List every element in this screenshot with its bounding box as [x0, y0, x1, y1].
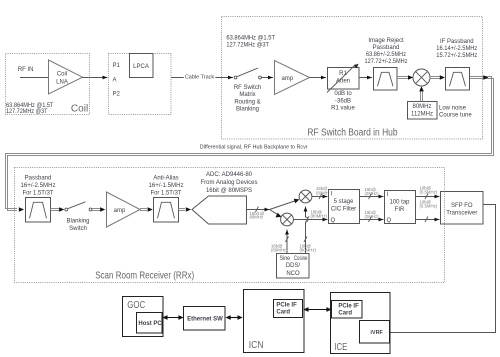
svg-text:DDS/: DDS/ — [286, 263, 301, 269]
svg-text:ICN: ICN — [249, 340, 264, 351]
svg-text:Image Reject: Image Reject — [368, 38, 404, 44]
svg-text:iVRF: iVRF — [370, 330, 383, 336]
svg-text:Routing &: Routing & — [234, 99, 260, 105]
svg-text:Matrix: Matrix — [239, 92, 255, 98]
svg-text:From Analog Devices: From Analog Devices — [200, 180, 257, 186]
svg-text:Ethernet SW: Ethernet SW — [187, 317, 223, 323]
svg-text:Transceiver: Transceiver — [446, 210, 477, 216]
svg-text:Cosine: Cosine — [294, 256, 308, 262]
svg-text:Cable Track: Cable Track — [185, 74, 215, 80]
svg-text:RF Switch Board in Hub: RF Switch Board in Hub — [307, 127, 398, 138]
svg-text:127.72+/-2.5MHz: 127.72+/-2.5MHz — [365, 59, 408, 65]
svg-text:Low noise: Low noise — [439, 105, 467, 111]
svg-text:-36dB: -36dB — [335, 98, 351, 104]
svg-text:IF Passband: IF Passband — [440, 39, 474, 45]
svg-text:Course tune: Course tune — [439, 113, 472, 119]
svg-text:16+/-1.5MHz: 16+/-1.5MHz — [149, 183, 184, 189]
svg-text:PCIe IF: PCIe IF — [338, 303, 359, 309]
svg-text:112MHz: 112MHz — [411, 111, 433, 117]
svg-text:GOC: GOC — [127, 300, 145, 311]
svg-text:63.86+/-2.5MHz: 63.86+/-2.5MHz — [366, 52, 406, 58]
svg-text:Switch: Switch — [69, 226, 87, 232]
svg-text:Scan Room Receiver (RRx): Scan Room Receiver (RRx) — [95, 270, 194, 281]
svg-text:127.72MHz @3T: 127.72MHz @3T — [6, 109, 48, 115]
svg-text:(2MHz): (2MHz) — [365, 191, 380, 196]
svg-text:(80MHz): (80MHz) — [311, 214, 328, 219]
svg-text:Card: Card — [338, 311, 352, 317]
svg-text:RF IN: RF IN — [18, 67, 34, 73]
svg-text:Passband: Passband — [25, 176, 52, 182]
svg-text:80MHz: 80MHz — [412, 104, 431, 110]
svg-text:Blanking: Blanking — [236, 107, 259, 113]
svg-text:Q: Q — [331, 218, 336, 224]
svg-text:ADC: AD9446-80: ADC: AD9446-80 — [206, 172, 253, 178]
svg-text:5 stage: 5 stage — [334, 199, 354, 205]
svg-text:Blanking: Blanking — [66, 219, 89, 225]
svg-text:ICE: ICE — [334, 342, 347, 353]
svg-text:LNA: LNA — [56, 80, 68, 86]
svg-text:16+/-2.5MHz: 16+/-2.5MHz — [21, 183, 56, 189]
svg-text:FIR: FIR — [395, 207, 405, 213]
svg-text:100 tap: 100 tap — [389, 200, 410, 206]
svg-text:(0.5MHz): (0.5MHz) — [420, 204, 438, 209]
svg-text:amp: amp — [114, 208, 126, 214]
svg-text:63.864MHz @1.5T: 63.864MHz @1.5T — [226, 36, 275, 42]
svg-text:R1 value: R1 value — [331, 106, 355, 112]
svg-text:Coil: Coil — [71, 103, 88, 114]
svg-text:0dB to: 0dB to — [334, 91, 352, 97]
svg-text:Differential signal, RF Hub Ba: Differential signal, RF Hub Backplane to… — [200, 145, 308, 151]
svg-text:80MHz: 80MHz — [250, 215, 264, 220]
svg-text:P2: P2 — [113, 91, 121, 97]
svg-text:Passband: Passband — [373, 45, 400, 51]
svg-text:A: A — [113, 77, 117, 83]
svg-text:CIC Filter: CIC Filter — [331, 206, 356, 212]
svg-text:(80MHz): (80MHz) — [300, 247, 317, 252]
svg-text:16bit @ 80MSPS: 16bit @ 80MSPS — [206, 188, 252, 194]
svg-text:NCO: NCO — [286, 271, 300, 277]
svg-text:For 1.5T/3T: For 1.5T/3T — [151, 190, 182, 196]
svg-text:15.72+/-2.5MHz: 15.72+/-2.5MHz — [436, 53, 477, 59]
svg-text:Coil: Coil — [57, 72, 67, 78]
svg-text:(0.5MHz): (0.5MHz) — [420, 189, 438, 194]
svg-text:For 1.5T/3T: For 1.5T/3T — [23, 190, 54, 196]
svg-text:Card: Card — [276, 310, 290, 316]
svg-text:Anti-Alias: Anti-Alias — [153, 176, 178, 182]
svg-text:amp: amp — [281, 76, 293, 82]
svg-text:RF Switch: RF Switch — [234, 85, 261, 91]
svg-text:LPCA: LPCA — [133, 64, 149, 70]
svg-text:(80MHz): (80MHz) — [271, 247, 288, 252]
svg-text:127.72MHz @3T: 127.72MHz @3T — [226, 42, 269, 48]
svg-text:(2MHz): (2MHz) — [365, 214, 380, 219]
svg-text:PCIe IF: PCIe IF — [276, 303, 297, 309]
svg-text:63.864MHz @1.5T: 63.864MHz @1.5T — [6, 103, 54, 109]
svg-text:P1: P1 — [113, 63, 121, 69]
svg-text:SFP FO: SFP FO — [451, 203, 473, 209]
svg-text:Host PC: Host PC — [138, 321, 162, 327]
svg-text:16.14+/-2.5MHz: 16.14+/-2.5MHz — [436, 46, 477, 52]
svg-text:Sine: Sine — [280, 256, 291, 262]
svg-text:Q: Q — [387, 218, 392, 224]
